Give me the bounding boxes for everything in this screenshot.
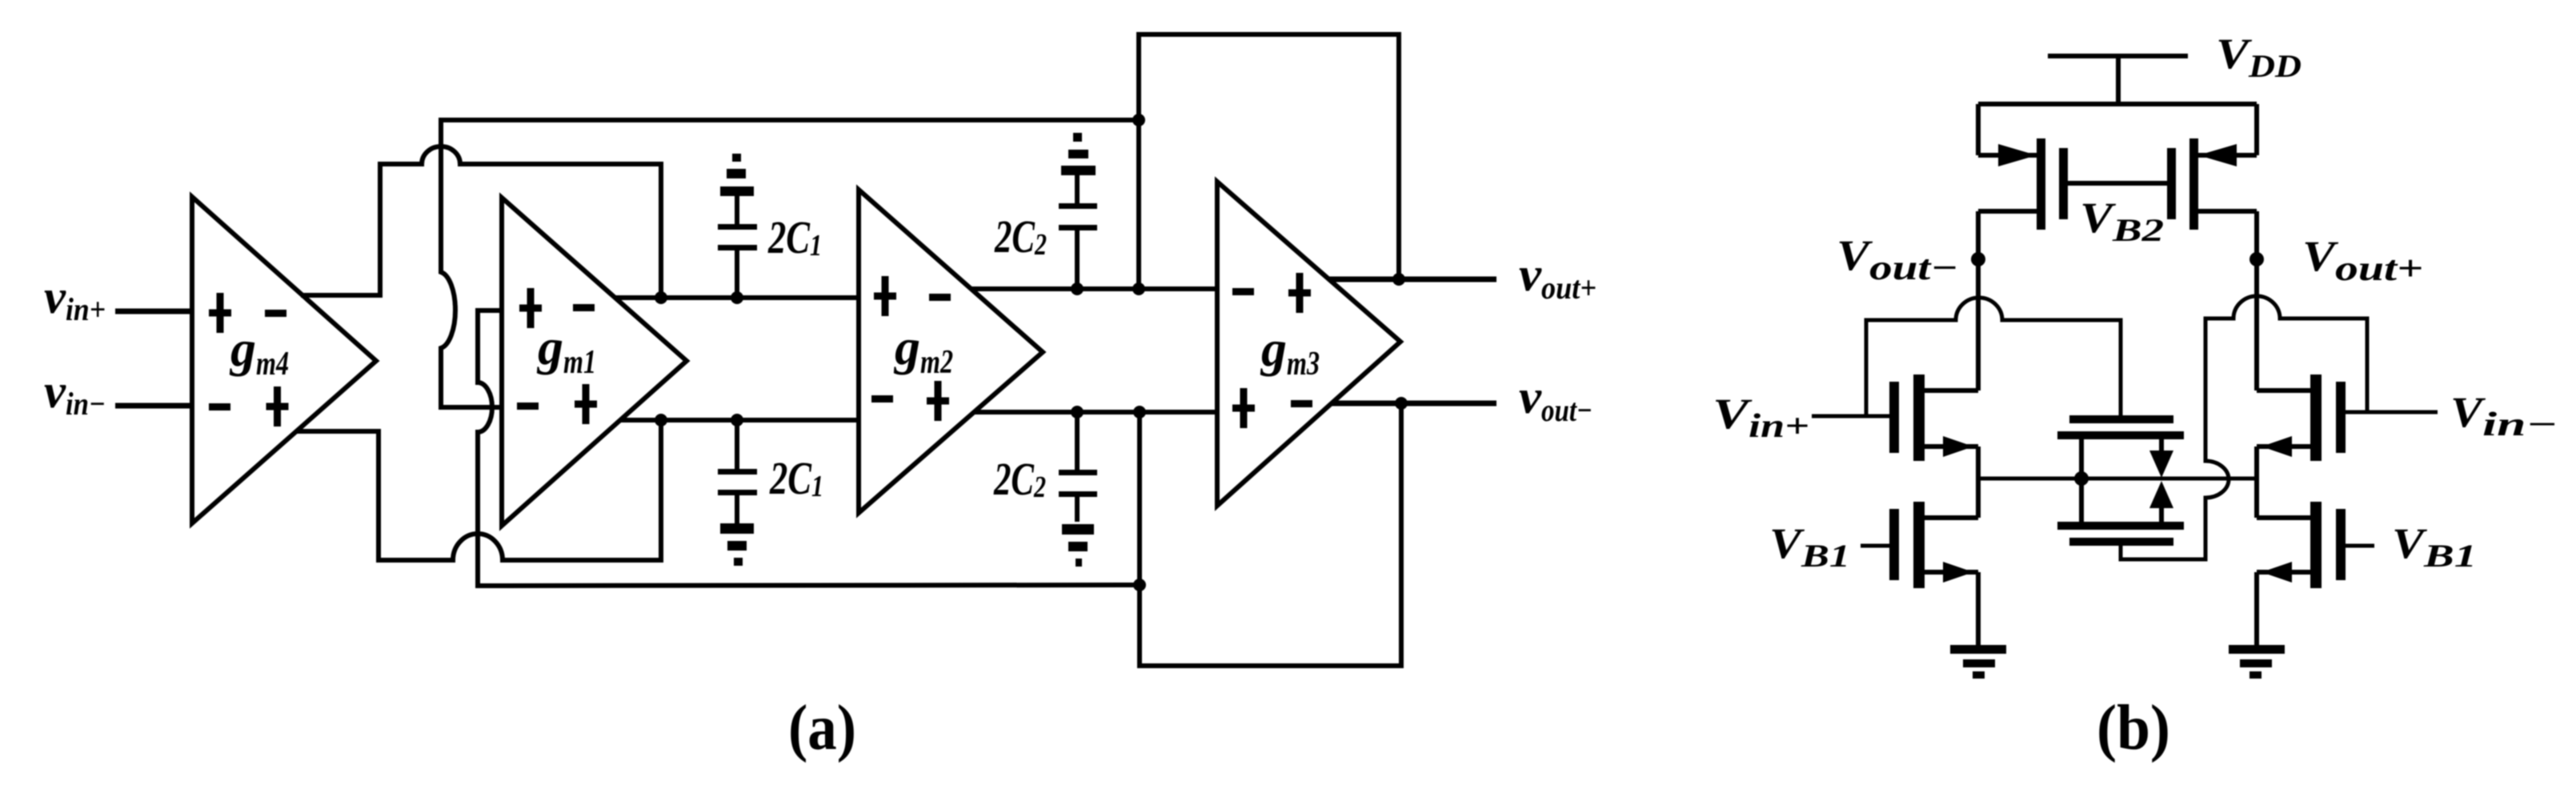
wire gm4 top output to node A (up and over): [301, 146, 661, 298]
power VDD bar: [2048, 54, 2188, 58]
wire source rail: [1978, 102, 2257, 106]
gm4 plus (top-left input polarity): [209, 293, 231, 333]
transistor MC2 (center bottom, horizontal): [2057, 508, 2184, 546]
svg-text:(b): (b): [2097, 693, 2170, 763]
wire top feedback rectangle: [1139, 34, 1399, 289]
gm2 plus (top-left): [874, 276, 896, 316]
node dot cap 2C2 bottom: [1071, 406, 1084, 419]
wire top row gm2 out to gm3 in: [971, 286, 1217, 291]
transistor MC1 (center top, horizontal): [2057, 415, 2184, 522]
transistor M2 (right input NMOS): [2257, 374, 2346, 518]
node dot top line to rectangle: [1132, 114, 1145, 126]
node dot bottom feedback junction: [1133, 406, 1146, 419]
gm1 minus (top-right): [573, 304, 595, 311]
node dot Vout-: [1971, 252, 1985, 266]
op-amp gm4: [192, 197, 376, 523]
gm2 minus (top-right): [929, 294, 951, 301]
wire bottom row gm1 out to gm2 in: [620, 418, 859, 423]
transistor M1 (left input NMOS): [1889, 374, 1978, 518]
gm4 minus (bottom-left input polarity): [209, 403, 230, 411]
wire gm1 plus input stub down to bottom feedback line: [478, 310, 1140, 586]
wire gm3 bottom output to vout-: [1332, 401, 1496, 407]
diode pair (back-to-back): [2149, 451, 2173, 508]
gm3 plus (bottom-left): [1232, 388, 1255, 428]
gm1 plus (top-left): [519, 288, 542, 328]
op-amp gm3: [1217, 182, 1400, 506]
wire middle node line: [1978, 477, 2257, 481]
capacitor 2C2 bottom: [1059, 412, 1097, 567]
node dot junction cap 2C1 top: [731, 291, 743, 304]
wire vin- to gm4: [115, 403, 192, 409]
gm1 plus (bottom-right): [575, 384, 597, 424]
wire VDD stub: [2116, 56, 2121, 106]
wire VB2 gate link: [2068, 181, 2167, 186]
transistor MB1 (left bias NMOS): [1861, 502, 1978, 647]
node dot top feedback junction: [1132, 282, 1145, 295]
wire gm3 top output to vout+: [1329, 277, 1496, 282]
gm3 plus (top-right): [1288, 273, 1311, 313]
node dot bottom line to rectangle: [1133, 579, 1146, 591]
wire top row gm1 out to gm2 in: [615, 295, 859, 300]
wire Vin+ to gate: [1812, 415, 1889, 419]
gm4 plus (bottom-right output polarity): [266, 386, 289, 427]
wire cross-couple bottom gate (to Vin- side): [2121, 296, 2367, 559]
capacitor 2C2 top: [1059, 133, 1097, 289]
transistor M6 (right PMOS): [2167, 104, 2257, 390]
node dot Vout+: [2249, 252, 2264, 266]
node dot center tail: [2074, 471, 2089, 486]
wire cross-couple top gate (to Vin+ side): [1866, 298, 2121, 416]
capacitor 2C1 top: [718, 154, 757, 298]
gm1 minus (bottom-left): [517, 403, 539, 410]
op-amp gm2: [859, 190, 1043, 513]
svg-text:(a): (a): [788, 693, 856, 763]
gm3 minus (bottom-right): [1291, 400, 1312, 407]
wire Vin- to gate: [2346, 411, 2438, 415]
node dot junction gm4-gm1 top: [655, 291, 667, 304]
wire gm4 bottom output to node B (down and under): [296, 420, 661, 560]
op-amp gm1: [502, 198, 687, 526]
wire vin+ to gm4: [115, 309, 192, 314]
transistor MB2 (right bias NMOS): [2257, 502, 2374, 647]
wire bottom feedback rectangle: [1140, 403, 1401, 666]
ground left: [1950, 645, 2006, 679]
node dot vout+ rectangle junction: [1392, 273, 1405, 286]
node dot vout- rectangle junction: [1395, 397, 1408, 410]
gm3 minus (top-left): [1232, 288, 1254, 295]
ground right: [2229, 645, 2285, 679]
gm2 plus (bottom-right): [927, 381, 949, 421]
gm2 minus (bottom-left): [871, 395, 893, 403]
node dot junction cap 2C1 bottom: [731, 414, 743, 427]
node dot junction gm4-gm1 bottom: [655, 414, 667, 427]
capacitor 2C1 bottom: [718, 420, 757, 566]
wire bottom row gm2 out to gm3 in: [974, 410, 1217, 415]
wire top feedback line y=150: [441, 120, 1139, 407]
node dot cap 2C2 top: [1071, 282, 1084, 295]
gm4 minus (top-right output polarity): [265, 310, 286, 317]
transistor M5 (left PMOS): [1978, 104, 2068, 390]
